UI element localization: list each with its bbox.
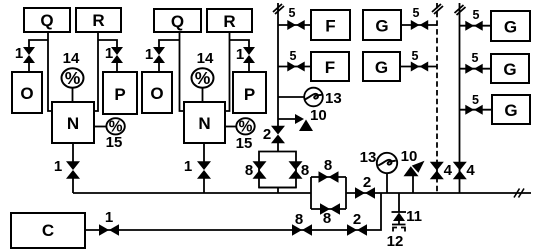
svg-text:11: 11: [406, 208, 422, 225]
svg-text:5: 5: [289, 6, 296, 20]
svg-text:5: 5: [413, 6, 420, 20]
svg-text:12: 12: [387, 233, 404, 250]
svg-text:F: F: [325, 58, 335, 77]
svg-text:2: 2: [263, 126, 271, 143]
svg-text:13: 13: [325, 90, 342, 107]
svg-text:G: G: [375, 58, 388, 77]
svg-text:C: C: [42, 221, 54, 240]
svg-text:10: 10: [401, 148, 418, 165]
svg-text:1: 1: [145, 46, 153, 63]
svg-text:8: 8: [323, 210, 331, 227]
svg-text:5: 5: [472, 93, 479, 107]
svg-text:1: 1: [184, 158, 192, 175]
svg-text:10: 10: [310, 107, 327, 124]
svg-text:F: F: [325, 17, 335, 36]
svg-text:G: G: [504, 101, 517, 120]
svg-text:8: 8: [301, 162, 309, 179]
svg-text:Q: Q: [40, 11, 53, 30]
svg-text:1: 1: [105, 45, 113, 62]
svg-text:15: 15: [106, 134, 123, 151]
svg-text:P: P: [114, 85, 125, 104]
svg-text:2: 2: [363, 174, 371, 191]
svg-text:15: 15: [236, 135, 253, 152]
svg-text:8: 8: [245, 162, 253, 179]
svg-text:G: G: [503, 60, 516, 79]
svg-text:5: 5: [472, 51, 479, 65]
svg-text:5: 5: [473, 8, 480, 22]
svg-text:P: P: [244, 85, 255, 104]
svg-text:1: 1: [54, 158, 62, 175]
svg-text:4: 4: [466, 162, 475, 179]
svg-text:R: R: [92, 11, 104, 30]
svg-text:1: 1: [15, 45, 23, 62]
svg-text:2: 2: [353, 211, 361, 228]
svg-text:13: 13: [360, 149, 377, 166]
svg-text:5: 5: [290, 49, 297, 63]
svg-text:1: 1: [105, 209, 113, 226]
svg-text:G: G: [375, 17, 388, 36]
svg-text:N: N: [198, 114, 210, 133]
svg-text:N: N: [67, 114, 79, 133]
svg-text:R: R: [223, 12, 235, 31]
svg-text:8: 8: [295, 211, 303, 228]
svg-text:O: O: [150, 84, 163, 103]
svg-text:4: 4: [444, 162, 453, 179]
svg-text:O: O: [20, 84, 33, 103]
svg-text:5: 5: [412, 49, 419, 63]
svg-text:1: 1: [236, 46, 244, 63]
svg-text:G: G: [504, 18, 517, 37]
svg-text:8: 8: [324, 157, 332, 174]
svg-text:Q: Q: [171, 12, 184, 31]
svg-text:14: 14: [63, 50, 80, 67]
svg-text:14: 14: [197, 50, 214, 67]
